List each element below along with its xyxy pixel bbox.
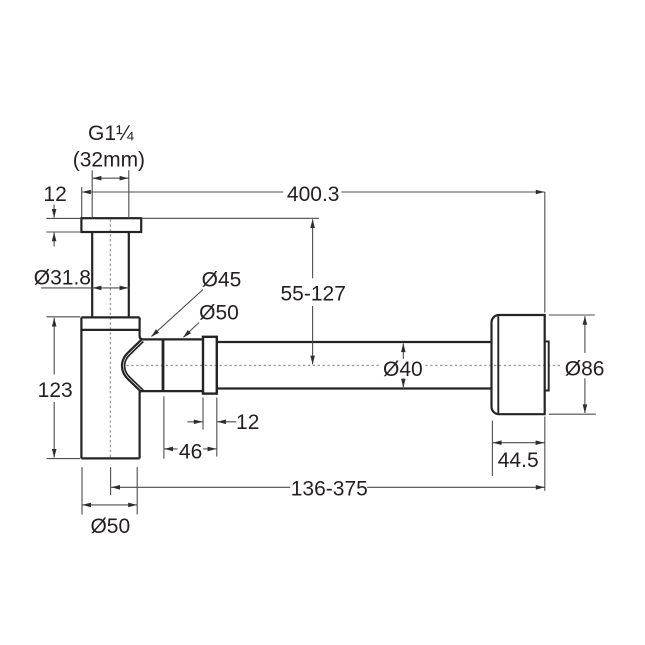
svg-text:Ø45: Ø45 [202,268,242,291]
svg-text:Ø50: Ø50 [90,515,130,538]
svg-text:136-375: 136-375 [291,477,368,500]
svg-text:G1¼: G1¼ [88,122,134,145]
svg-text:12: 12 [236,411,259,434]
svg-text:123: 123 [38,379,73,402]
svg-text:400.3: 400.3 [287,183,340,206]
svg-text:Ø40: Ø40 [383,358,423,381]
svg-text:12: 12 [43,183,66,206]
svg-text:55-127: 55-127 [281,283,346,306]
svg-text:Ø86: Ø86 [565,357,605,380]
svg-text:46: 46 [179,440,202,463]
svg-text:(32mm): (32mm) [73,149,145,172]
svg-text:Ø31.8: Ø31.8 [34,267,91,290]
svg-text:Ø50: Ø50 [199,301,239,324]
svg-text:44.5: 44.5 [498,449,539,472]
